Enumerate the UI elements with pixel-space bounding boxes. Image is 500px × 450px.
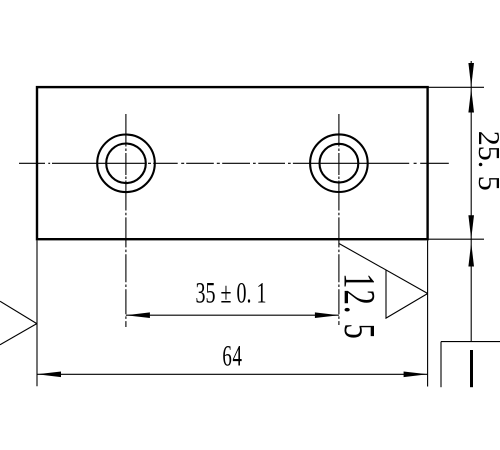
- dimension line 35: [126, 314, 339, 316]
- extension line below right edge: [427, 240, 429, 386]
- hole 1 inner circle: [106, 144, 146, 184]
- part outline rectangle: [37, 87, 428, 239]
- extension line right of top edge: [427, 86, 484, 88]
- hole 2 vertical centerline / extension: [338, 114, 340, 325]
- lower view top edge: [441, 341, 500, 343]
- svg-text:12. 5: 12. 5: [335, 273, 384, 340]
- roughness symbol right long leg: [339, 244, 428, 294]
- dimension line 25.5 vertical: [470, 61, 472, 342]
- hole 1 outer circle: [97, 135, 155, 193]
- roughness symbol right triangle: [386, 270, 428, 318]
- arrow inside bottom (pointing down): [468, 215, 474, 239]
- svg-text:64: 64: [222, 340, 242, 372]
- arrow left of dim 35: [126, 312, 150, 318]
- roughness symbol left upper leg: [0, 301, 37, 323]
- extension line below left edge: [36, 240, 38, 386]
- hole 2 inner circle: [320, 144, 359, 183]
- lower view thick section bar: [470, 350, 473, 387]
- arrow below bottom (pointing up): [468, 243, 474, 267]
- arrow right of dim 35: [315, 312, 339, 318]
- arrow above top (pointing down): [468, 63, 474, 87]
- horizontal centerline: [19, 162, 450, 164]
- arrow left of dim 64: [37, 372, 61, 378]
- roughness symbol left lower leg: [0, 324, 37, 345]
- arrow right of dim 64: [404, 372, 428, 378]
- dimension line 64: [37, 373, 428, 375]
- svg-text:35 ± 0. 1: 35 ± 0. 1: [196, 275, 267, 309]
- svg-text:25. 5: 25. 5: [472, 131, 500, 191]
- hole 2 outer circle: [310, 134, 368, 192]
- lower view left edge: [440, 342, 442, 388]
- extension line right of bottom edge: [427, 238, 484, 240]
- hole 1 vertical centerline / extension: [125, 114, 127, 327]
- arrow inside top (pointing up): [468, 89, 474, 113]
